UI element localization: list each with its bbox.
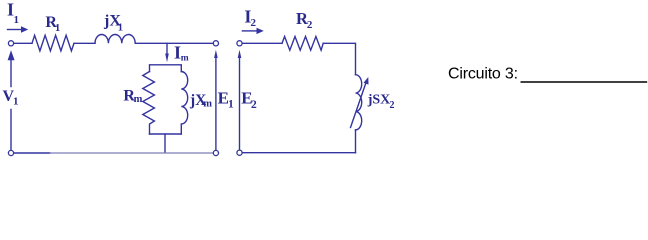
wire E1 branch bbox=[215, 58, 217, 151]
terminal bottom-left bbox=[8, 150, 13, 155]
wire E2 branch bbox=[239, 58, 241, 151]
svg-text:m: m bbox=[181, 54, 189, 64]
svg-text:1: 1 bbox=[228, 98, 234, 110]
wire right edge bottom bbox=[355, 130, 357, 153]
wire V1 branch bbox=[10, 60, 12, 151]
terminal top-left of right circuit bbox=[237, 41, 242, 46]
terminal top-right of left circuit bbox=[213, 41, 218, 46]
svg-text:2: 2 bbox=[390, 100, 395, 111]
wire R2 to corner bbox=[323, 43, 355, 74]
wire right circuit top rail bbox=[242, 42, 282, 44]
svg-text:2: 2 bbox=[307, 19, 313, 31]
wire magnetizing box bottom bbox=[150, 133, 182, 135]
inductor jX1 bbox=[95, 35, 135, 44]
terminal top-left bbox=[8, 41, 13, 46]
arrowhead E2 bbox=[238, 50, 242, 58]
wire Im stem bbox=[166, 43, 168, 53]
resistor R1 bbox=[32, 35, 74, 51]
svg-text:1: 1 bbox=[55, 23, 60, 34]
wire I1 arrow shaft bbox=[8, 29, 22, 31]
arrowhead E1 bbox=[214, 50, 218, 58]
svg-text:1: 1 bbox=[13, 96, 19, 108]
wire bottom rail dark segment bbox=[14, 152, 50, 154]
wire magnetizing stem bottom bbox=[164, 134, 166, 152]
wire top rail left segment bbox=[14, 42, 32, 44]
inductor jSX2 bbox=[356, 75, 362, 130]
svg-text:1: 1 bbox=[118, 22, 123, 33]
terminal bottom-left of right circuit bbox=[237, 150, 242, 155]
arrowhead V1 bbox=[8, 50, 15, 60]
svg-text:2: 2 bbox=[251, 17, 257, 29]
wire top rail right segment bbox=[135, 42, 213, 44]
svg-text:1: 1 bbox=[14, 14, 20, 26]
wire right circuit bottom rail bbox=[242, 152, 355, 154]
wire between R1 and jX1 bbox=[74, 42, 95, 44]
wire I2 arrow shaft bbox=[242, 30, 256, 32]
resistor R2 bbox=[282, 37, 323, 51]
inductor jXm bbox=[181, 72, 187, 135]
wire magnetizing box top bbox=[150, 65, 182, 72]
svg-text:jSX: jSX bbox=[367, 93, 391, 108]
wire bottom rail light segment bbox=[50, 152, 213, 154]
arrow through jSX2 bbox=[351, 82, 367, 128]
arrowhead I1 bbox=[21, 26, 28, 32]
blank underline bbox=[521, 81, 648, 83]
arrowhead Im bbox=[165, 54, 169, 63]
svg-text:Circuito 3:: Circuito 3: bbox=[448, 66, 518, 83]
terminal bottom-right of left circuit bbox=[213, 150, 218, 155]
arrowhead I2 bbox=[257, 28, 264, 34]
arrowhead jSX2 variable arrow bbox=[364, 77, 369, 85]
svg-text:m: m bbox=[203, 99, 212, 110]
svg-text:2: 2 bbox=[251, 99, 257, 111]
svg-text:m: m bbox=[134, 94, 143, 105]
resistor Rm bbox=[143, 72, 155, 135]
